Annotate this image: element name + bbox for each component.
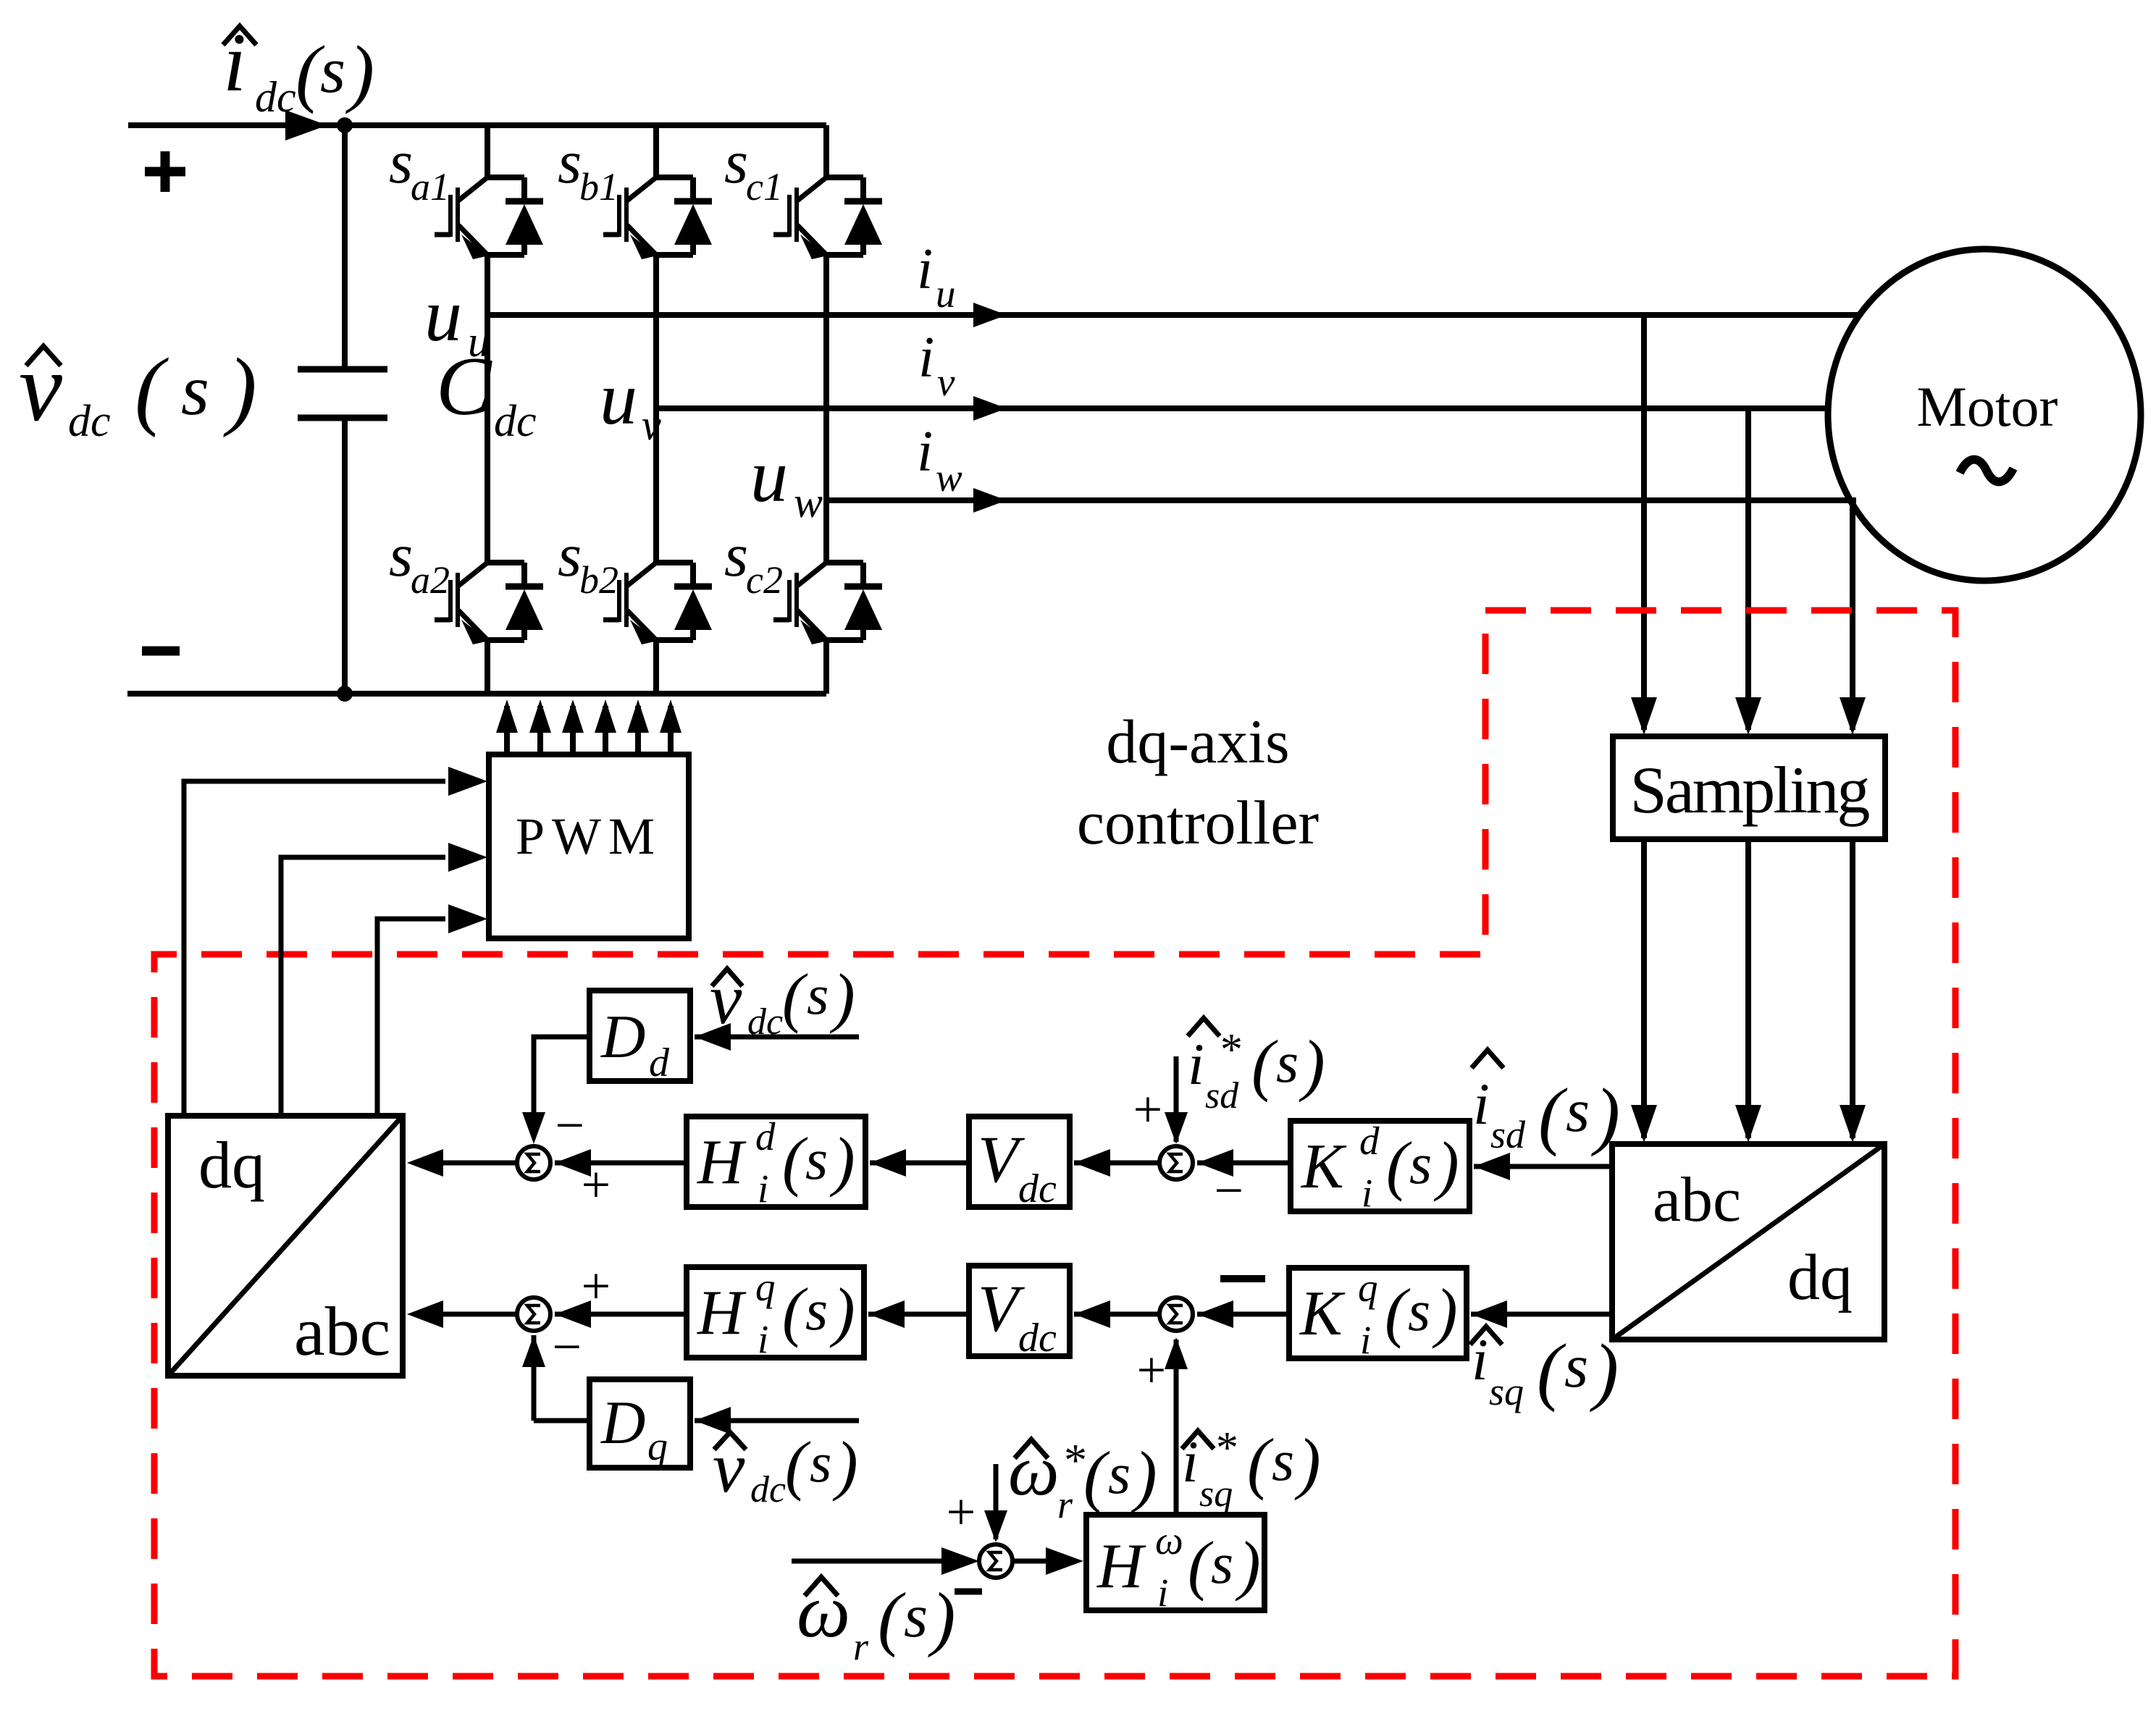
- svg-text:v: v: [713, 1427, 745, 1508]
- svg-text:r: r: [1057, 1483, 1073, 1526]
- label w_r(s): [797, 1568, 955, 1668]
- wire: Dq out: [534, 1418, 590, 1424]
- wire: gate signal 1: [504, 706, 510, 754]
- transistor S_b2: [603, 563, 712, 644]
- arrow: gate 3: [562, 699, 584, 733]
- wire: pwm input 3: [377, 919, 445, 1116]
- svg-text:v: v: [19, 334, 62, 442]
- label i_w: [917, 420, 962, 500]
- boundary: dq-axis controller (red dashed): [154, 610, 1955, 1676]
- svg-text:ω: ω: [1155, 1518, 1183, 1563]
- wire: leg b middle: [653, 255, 659, 563]
- label u_v: [600, 357, 661, 449]
- arrow: gate 5: [627, 699, 649, 733]
- arrow: i_u: [973, 303, 1007, 327]
- label S_a2: [389, 521, 450, 602]
- svg-text:i: i: [918, 326, 934, 390]
- block: K_i^d(s): [1291, 1119, 1469, 1215]
- wire: sampled i_v: [1745, 839, 1751, 1138]
- label i_dc(s): [223, 17, 374, 121]
- svg-text:): ): [1299, 1026, 1325, 1103]
- svg-text:i: i: [1473, 1071, 1490, 1137]
- svg-text:ω: ω: [1008, 1430, 1060, 1510]
- block: PWM: [489, 754, 689, 938]
- wire: i_w sense tap: [1850, 500, 1855, 730]
- svg-text:w: w: [794, 479, 823, 526]
- svg-text:s: s: [320, 35, 345, 106]
- arrow: into Vdc d: [1074, 1149, 1110, 1177]
- wire: phase w: [826, 497, 1856, 503]
- wire: isd* into sum3: [1174, 1056, 1179, 1142]
- svg-text:r: r: [853, 1625, 869, 1668]
- svg-text:abc: abc: [294, 1292, 390, 1370]
- wire: sum3 to Vdc: [1074, 1161, 1159, 1166]
- svg-text:*: *: [1062, 1434, 1085, 1486]
- arrow: into Hw: [1046, 1547, 1083, 1575]
- wire: Hq to sum2: [555, 1312, 687, 1317]
- svg-text:): ): [832, 1428, 858, 1502]
- wire: DC negative rail: [127, 691, 826, 697]
- label i_v: [918, 326, 955, 404]
- svg-text:+: +: [943, 1483, 978, 1541]
- svg-text:): ): [928, 1578, 955, 1658]
- label S_b1: [558, 128, 618, 209]
- svg-text:−: −: [552, 1096, 587, 1154]
- arrow: gate 4: [595, 699, 616, 733]
- svg-text:(: (: [878, 1578, 906, 1658]
- svg-text:): ): [829, 1124, 855, 1198]
- svg-text:(: (: [1188, 1528, 1214, 1602]
- svg-text:sd: sd: [1490, 1113, 1526, 1156]
- label dq-axis controller: [1077, 707, 1319, 857]
- svg-text:s: s: [810, 1431, 831, 1494]
- svg-text:s: s: [1108, 1442, 1131, 1506]
- block: K_i^q(s): [1289, 1266, 1467, 1362]
- svg-text:s: s: [1566, 1077, 1590, 1145]
- wire: sampled i_u: [1641, 839, 1647, 1138]
- arrow: into sum2 right: [555, 1300, 591, 1328]
- svg-text:dq: dq: [1787, 1242, 1853, 1313]
- transistor S_c1: [773, 177, 882, 259]
- svg-text:i: i: [758, 1166, 768, 1211]
- label - at sum5: [955, 1589, 982, 1595]
- label i_u: [917, 237, 956, 316]
- svg-text:s: s: [724, 521, 748, 589]
- label S_c1: [724, 128, 783, 209]
- wire: DC positive rail: [128, 122, 826, 128]
- svg-text:c1: c1: [746, 165, 783, 209]
- svg-text:H: H: [697, 1127, 747, 1198]
- block: H_i^d(s): [687, 1114, 865, 1211]
- wire: sum2 down from Dq: [532, 1335, 537, 1421]
- wire: Vdc2 to Hq: [868, 1312, 969, 1317]
- svg-text:d: d: [755, 1114, 776, 1159]
- wire: abcdq to Kq: [1471, 1312, 1612, 1317]
- svg-text:a2: a2: [411, 558, 450, 602]
- svg-text:(: (: [782, 960, 808, 1034]
- svg-text:c2: c2: [746, 558, 783, 602]
- svg-text:PWM: PWM: [516, 807, 662, 865]
- svg-text:sd: sd: [1205, 1075, 1239, 1117]
- svg-text:i: i: [758, 1317, 768, 1361]
- label i_sq*(s): [1182, 1424, 1321, 1515]
- svg-text:): ): [345, 30, 374, 114]
- transistor S_a1: [435, 177, 543, 259]
- arrow: into abc-dq c: [1840, 1105, 1866, 1143]
- svg-text:dc: dc: [255, 73, 296, 121]
- arrow: into Dd: [695, 1023, 731, 1051]
- arrow: gate 2: [529, 699, 551, 733]
- wire: i_v sense tap: [1745, 408, 1751, 730]
- svg-text:): ): [1433, 1128, 1459, 1202]
- summing junction S4: [1159, 1298, 1193, 1331]
- svg-text:(: (: [782, 1274, 808, 1348]
- wire: sum1 to dq-abc: [442, 1161, 517, 1166]
- wire: phase u: [487, 312, 1858, 318]
- label i_sq(s): [1470, 1326, 1619, 1413]
- transistor S_b1: [603, 177, 712, 259]
- svg-text:+: +: [1130, 1080, 1165, 1138]
- arrow: into Hq: [868, 1300, 905, 1328]
- svg-text:(: (: [1538, 1072, 1568, 1157]
- svg-text:(: (: [1247, 1424, 1274, 1501]
- wire: Dd to sum1: [534, 1037, 590, 1122]
- block: V_dc (d): [969, 1117, 1070, 1211]
- wire: leg a middle: [485, 255, 490, 563]
- node: dc- junction: [337, 686, 353, 702]
- svg-text:abc: abc: [1653, 1165, 1741, 1235]
- svg-text:dq: dq: [198, 1128, 265, 1202]
- svg-text:s: s: [181, 350, 209, 430]
- wire: pwm input 1: [184, 781, 445, 1116]
- arrow: i_v: [973, 396, 1007, 421]
- block: dq to abc transform: [168, 1116, 403, 1376]
- svg-text:D: D: [600, 1389, 645, 1457]
- arrow: pwm in 2: [448, 843, 487, 872]
- svg-text:Sampling: Sampling: [1630, 753, 1870, 827]
- label S_a1: [389, 128, 450, 209]
- wire: isq* to sum4: [1174, 1340, 1179, 1515]
- wire: Vdc to Hd: [870, 1161, 969, 1166]
- svg-text:sq: sq: [1489, 1370, 1524, 1413]
- svg-text:dc: dc: [68, 397, 111, 446]
- arrow: into Kq: [1471, 1300, 1507, 1328]
- block: D_d: [590, 991, 690, 1085]
- wire: leg b upper: [653, 125, 659, 178]
- svg-text:v: v: [710, 959, 742, 1039]
- svg-text:i: i: [1472, 1326, 1488, 1392]
- arrow: dc input current: [285, 110, 327, 140]
- wire: vdc to Dq: [695, 1418, 859, 1424]
- wire: wr* into sum5: [994, 1464, 999, 1539]
- wire: gate signal 3: [570, 706, 576, 754]
- svg-text:): ): [1235, 1528, 1261, 1602]
- svg-text:H: H: [697, 1278, 747, 1348]
- svg-text:i: i: [1182, 1429, 1199, 1494]
- svg-text:dc: dc: [747, 1001, 783, 1043]
- label v_dc(s) at Dd: [710, 959, 855, 1043]
- label S_c2: [724, 521, 783, 602]
- svg-text:dc: dc: [1018, 1166, 1057, 1211]
- label - (dc negative): [142, 647, 180, 656]
- capacitor C_dc: [298, 125, 387, 694]
- svg-text:i: i: [917, 237, 933, 301]
- svg-text:u: u: [600, 357, 637, 440]
- transistor S_c2: [773, 563, 882, 644]
- summing junction S1: [517, 1146, 550, 1180]
- svg-text:): ): [829, 960, 855, 1034]
- svg-text:u: u: [424, 274, 462, 357]
- wire: leg c upper: [823, 125, 829, 178]
- block: H_i^q(s): [687, 1265, 864, 1361]
- svg-text:s: s: [1408, 1279, 1430, 1343]
- label C_dc: [436, 340, 537, 446]
- arrow: into Kd: [1474, 1153, 1510, 1180]
- svg-text:*: *: [1218, 1025, 1241, 1075]
- arrow: into dq-abc q: [407, 1300, 443, 1328]
- wire: Kd to sum3: [1197, 1161, 1291, 1166]
- svg-text:b2: b2: [579, 558, 618, 602]
- svg-text:): ): [1131, 1437, 1157, 1514]
- wire: leg c lower: [823, 640, 829, 694]
- arrow: Dd into sum1: [522, 1112, 545, 1144]
- arrow: pwm in 1: [448, 767, 487, 796]
- block: abc to dq transform: [1612, 1144, 1884, 1340]
- svg-text:sq: sq: [1199, 1473, 1233, 1515]
- label i_sd*(s): [1188, 1018, 1325, 1117]
- wire: gate signal 2: [537, 706, 543, 754]
- svg-text:(: (: [782, 1124, 808, 1198]
- svg-text:): ): [829, 1274, 855, 1348]
- arrow: into sum5 left: [941, 1547, 979, 1575]
- arrow: into dq-abc d: [407, 1149, 443, 1177]
- svg-text:dc: dc: [494, 397, 537, 446]
- svg-text:s: s: [904, 1582, 928, 1650]
- arrow: into Vdc q: [1074, 1300, 1110, 1328]
- block: Sampling: [1613, 736, 1885, 839]
- arrow: into abc-dq a: [1631, 1105, 1657, 1143]
- svg-text:q: q: [647, 1424, 668, 1469]
- wire: phase v: [656, 405, 1829, 411]
- label - at sum4: [1220, 1275, 1265, 1282]
- label u_u: [424, 274, 490, 366]
- wire: abcdq to Kd: [1474, 1164, 1612, 1169]
- wire: sum5 to Hw: [1012, 1559, 1046, 1564]
- label w_r*(s): [1008, 1430, 1157, 1526]
- svg-text:(: (: [135, 340, 169, 438]
- svg-text:v: v: [642, 401, 661, 449]
- summing junction S5: [979, 1544, 1012, 1578]
- wire: leg a upper: [485, 125, 490, 178]
- arrow: into sum3 right: [1197, 1149, 1233, 1177]
- wire: sum2 to dq-abc: [442, 1312, 517, 1317]
- motor M1: [1828, 249, 2141, 581]
- svg-text:u: u: [750, 434, 788, 518]
- svg-text:(: (: [1385, 1275, 1411, 1349]
- svg-text:a1: a1: [411, 165, 450, 209]
- arrow: into sampling b: [1735, 697, 1761, 735]
- svg-text:s: s: [389, 521, 413, 589]
- arrow: into sum3 top: [1165, 1112, 1188, 1144]
- svg-text:i: i: [223, 17, 246, 109]
- arrow: i_w: [973, 488, 1007, 513]
- wire: sum4 to Vdc2: [1074, 1312, 1159, 1317]
- wire: pwm input 2: [281, 857, 445, 1116]
- svg-text:d: d: [649, 1040, 670, 1085]
- svg-text:q: q: [1358, 1266, 1378, 1310]
- svg-text:i: i: [1188, 1031, 1204, 1097]
- svg-text:): ): [223, 340, 257, 438]
- svg-text:s: s: [807, 963, 829, 1026]
- transistor S_a2: [435, 563, 543, 644]
- arrow: into abc-dq b: [1735, 1105, 1761, 1143]
- svg-text:D: D: [600, 1003, 645, 1071]
- svg-text:s: s: [1211, 1532, 1233, 1596]
- svg-text:u: u: [936, 272, 956, 316]
- label i_sd(s): [1472, 1050, 1620, 1157]
- label u_w: [750, 434, 823, 526]
- svg-text:b1: b1: [579, 165, 618, 209]
- svg-text:s: s: [724, 128, 748, 196]
- svg-text:K: K: [1300, 1132, 1347, 1202]
- arrow: gate 1: [496, 699, 518, 733]
- arrow: into sampling a: [1631, 697, 1657, 735]
- arrow: wr* into sum5: [984, 1510, 1007, 1542]
- svg-text:i: i: [1362, 1171, 1372, 1215]
- svg-text:dc: dc: [750, 1469, 786, 1510]
- wire: gate signal 4: [603, 706, 608, 754]
- wire: Kq to sum4: [1197, 1312, 1289, 1317]
- wire: wr into sum5: [792, 1559, 941, 1564]
- svg-text:d: d: [1359, 1119, 1380, 1163]
- wire: vdc to Dd: [695, 1035, 859, 1040]
- svg-text:K: K: [1299, 1279, 1346, 1349]
- wire: leg b lower: [653, 640, 659, 694]
- label + (dc positive): [145, 151, 185, 192]
- block: D_q: [590, 1379, 690, 1469]
- arrow: into sum4 right: [1197, 1300, 1233, 1328]
- svg-text:(: (: [1386, 1128, 1412, 1202]
- svg-text:): ): [1432, 1275, 1458, 1349]
- svg-text:s: s: [389, 128, 413, 196]
- svg-text:(: (: [785, 1428, 811, 1502]
- summing junction S2: [517, 1298, 550, 1331]
- wire: gate signal 5: [635, 706, 641, 754]
- svg-text:H: H: [1096, 1531, 1146, 1602]
- svg-text:s: s: [558, 128, 582, 196]
- svg-text:i: i: [1157, 1570, 1168, 1615]
- arrow: Dq into sum2: [522, 1335, 545, 1367]
- svg-text:s: s: [558, 521, 582, 589]
- svg-text:s: s: [805, 1128, 828, 1192]
- arrow: into Hd: [870, 1149, 906, 1177]
- arrow: into Dq: [695, 1407, 731, 1434]
- label v_dc(s): [19, 334, 257, 446]
- block: V_dc (q): [969, 1266, 1070, 1361]
- wire: leg a lower: [485, 640, 490, 694]
- wire: gate signal 6: [668, 706, 674, 754]
- svg-text:w: w: [936, 455, 962, 500]
- summing junction S3: [1159, 1146, 1193, 1180]
- svg-text:*: *: [1214, 1424, 1236, 1473]
- svg-text:s: s: [805, 1279, 828, 1342]
- svg-text:dc: dc: [1018, 1316, 1057, 1361]
- svg-text:): ): [1590, 1328, 1619, 1413]
- svg-text:−: −: [549, 1318, 584, 1376]
- svg-text:i: i: [1360, 1318, 1371, 1362]
- svg-text:(: (: [1251, 1026, 1278, 1103]
- svg-text:): ): [1591, 1072, 1620, 1157]
- arrow: into sampling c: [1840, 697, 1866, 735]
- label S_b2: [558, 521, 618, 602]
- svg-text:q: q: [755, 1265, 776, 1309]
- svg-text:): ): [1294, 1424, 1321, 1501]
- svg-text:s: s: [1276, 1031, 1299, 1095]
- svg-text:s: s: [1564, 1332, 1588, 1400]
- svg-text:(: (: [1083, 1437, 1110, 1514]
- node: dc+ junction: [337, 117, 353, 133]
- arrow: into sum1 right: [555, 1149, 591, 1177]
- arrow: gate 6: [660, 699, 681, 733]
- svg-text:ω: ω: [797, 1568, 850, 1653]
- wire: i_u sense tap: [1641, 315, 1647, 730]
- svg-text:Motor: Motor: [1917, 375, 2058, 438]
- svg-text:v: v: [937, 360, 955, 404]
- svg-text:(: (: [1537, 1328, 1566, 1413]
- label v_dc(s) at Dq: [713, 1427, 858, 1510]
- svg-text:s: s: [1272, 1429, 1294, 1493]
- svg-text:dq-axis: dq-axis: [1106, 707, 1289, 776]
- arrow: pwm in 3: [448, 904, 487, 933]
- wire: Hd to sum1: [555, 1161, 687, 1166]
- block: H_i^w(s): [1086, 1515, 1264, 1615]
- svg-text:u: u: [468, 318, 490, 366]
- svg-text:controller: controller: [1077, 788, 1319, 857]
- wire: sampled i_w: [1850, 839, 1855, 1138]
- wire: leg c middle: [823, 255, 829, 563]
- svg-text:i: i: [917, 420, 933, 484]
- arrow: isq* into sum4: [1165, 1337, 1188, 1369]
- svg-text:s: s: [1409, 1132, 1432, 1196]
- svg-text:+: +: [1133, 1341, 1169, 1399]
